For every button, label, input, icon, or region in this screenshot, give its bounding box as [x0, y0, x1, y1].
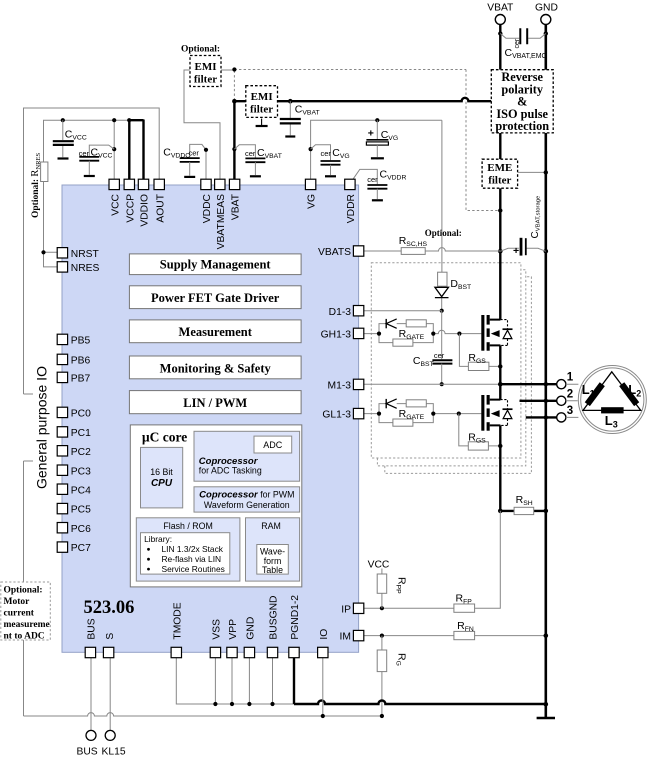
svg-text:LIN 1.3/2x Stack: LIN 1.3/2x Stack: [162, 544, 224, 554]
svg-text:CVDDR: CVDDR: [380, 169, 407, 182]
svg-text:General purpose IO: General purpose IO: [34, 366, 50, 489]
svg-text:GH1-3: GH1-3: [321, 330, 352, 341]
svg-text:523.06: 523.06: [84, 598, 135, 618]
svg-text:LIN / PWM: LIN / PWM: [183, 396, 247, 410]
svg-text:Optional:: Optional:: [4, 586, 43, 596]
svg-text:nt to ADC: nt to ADC: [4, 632, 45, 642]
svg-text:Waveform Generation: Waveform Generation: [204, 500, 290, 510]
svg-text:measureme: measureme: [4, 620, 50, 630]
svg-text:CVBAT: CVBAT: [295, 104, 320, 117]
svg-text:+: +: [368, 128, 374, 140]
svg-text:current: current: [4, 609, 35, 619]
svg-text:cer: cer: [367, 175, 378, 184]
svg-text:16 Bit: 16 Bit: [150, 467, 173, 477]
svg-text:PC6: PC6: [71, 524, 91, 535]
svg-text:IP: IP: [341, 604, 351, 615]
svg-text:TMODE: TMODE: [173, 602, 184, 639]
svg-text:VCCP: VCCP: [125, 194, 136, 223]
svg-text:CPU: CPU: [151, 478, 173, 489]
svg-text:for ADC Tasking: for ADC Tasking: [199, 466, 262, 476]
svg-text:Motor: Motor: [4, 597, 31, 607]
svg-text:RG: RG: [395, 653, 408, 666]
svg-text:BUS: BUS: [87, 618, 98, 639]
svg-text:CVG: CVG: [332, 147, 349, 160]
svg-text:filter: filter: [250, 104, 273, 116]
svg-text:D1-3: D1-3: [329, 307, 352, 318]
svg-text:AOUT: AOUT: [155, 193, 166, 222]
svg-text:CVBAT,EMC: CVBAT,EMC: [505, 47, 547, 60]
svg-text:Monitoring & Safety: Monitoring & Safety: [160, 361, 272, 375]
svg-text:1: 1: [567, 371, 574, 383]
svg-text:PC4: PC4: [71, 485, 91, 496]
svg-text:Table: Table: [262, 565, 283, 575]
svg-text:Measurement: Measurement: [179, 325, 253, 339]
svg-text:filter: filter: [194, 73, 217, 85]
svg-text:2: 2: [567, 389, 573, 401]
svg-text:VCC: VCC: [110, 193, 121, 215]
svg-text:Coprocessor for PWM: Coprocessor for PWM: [199, 489, 294, 500]
svg-text:filter: filter: [488, 175, 511, 187]
svg-text:Library:: Library:: [144, 534, 172, 544]
svg-text:cer: cer: [245, 149, 256, 158]
svg-text:S: S: [105, 633, 116, 640]
svg-text:M1-3: M1-3: [328, 381, 352, 392]
svg-text:VDDR: VDDR: [346, 194, 357, 223]
svg-text:Optional:: Optional:: [181, 44, 220, 54]
svg-text:KL15: KL15: [102, 747, 126, 758]
svg-text:cer: cer: [514, 38, 521, 48]
svg-text:RAM: RAM: [261, 521, 281, 531]
svg-text:VBATMEAS: VBATMEAS: [216, 194, 227, 249]
svg-text:VBAT: VBAT: [231, 193, 242, 220]
svg-text:GL1-3: GL1-3: [322, 410, 351, 421]
svg-text:VG: VG: [307, 194, 318, 209]
svg-text:PC3: PC3: [71, 466, 91, 477]
svg-text:PC7: PC7: [71, 543, 91, 554]
svg-text:EMI: EMI: [195, 61, 217, 73]
svg-text:cer: cer: [321, 149, 332, 158]
svg-text:RFN: RFN: [457, 620, 474, 633]
svg-text:PB5: PB5: [71, 336, 91, 347]
svg-text:ADC: ADC: [263, 440, 283, 450]
svg-text:RGATE: RGATE: [399, 408, 425, 421]
svg-text:BUS: BUS: [77, 747, 98, 758]
svg-text:Power FET Gate Driver: Power FET Gate Driver: [151, 291, 280, 305]
svg-text:RGS: RGS: [468, 432, 486, 445]
svg-text:NRST: NRST: [71, 249, 100, 260]
svg-text:VPP: VPP: [228, 619, 239, 640]
svg-text:PC5: PC5: [71, 505, 91, 516]
svg-text:protection: protection: [495, 119, 549, 133]
svg-text:NRES: NRES: [71, 263, 100, 274]
svg-text:cer: cer: [189, 148, 200, 157]
svg-text:CVBAT,storage: CVBAT,storage: [530, 195, 542, 239]
svg-text:Optional:: Optional:: [425, 228, 462, 238]
svg-text:Flash / ROM: Flash / ROM: [163, 521, 212, 531]
svg-text:RGS: RGS: [468, 352, 486, 365]
svg-text:VBAT: VBAT: [487, 3, 514, 14]
svg-text:VCC: VCC: [368, 560, 390, 571]
svg-text:PC0: PC0: [71, 409, 91, 420]
svg-text:PB7: PB7: [71, 374, 91, 385]
svg-text:GND: GND: [535, 3, 558, 14]
svg-text:IM: IM: [340, 632, 351, 643]
svg-text:CVDDC: CVDDC: [163, 146, 190, 159]
svg-text:CBST: CBST: [413, 355, 434, 368]
svg-text:Re-flash via LIN: Re-flash via LIN: [162, 554, 222, 564]
svg-text:CVCC: CVCC: [91, 147, 113, 160]
svg-text:RSH: RSH: [516, 494, 533, 507]
svg-text:CVCC: CVCC: [65, 128, 87, 141]
svg-text:RGATE: RGATE: [399, 328, 425, 341]
svg-text:EME: EME: [487, 162, 512, 174]
svg-text:PB6: PB6: [71, 356, 91, 367]
svg-text:GND: GND: [246, 617, 257, 640]
svg-text:CVG: CVG: [381, 129, 398, 142]
svg-text:VDDC: VDDC: [202, 193, 213, 223]
svg-text:VSS: VSS: [212, 619, 223, 640]
svg-text:CVBAT: CVBAT: [257, 147, 282, 160]
svg-text:PGND1-2: PGND1-2: [290, 595, 301, 640]
svg-text:+: +: [513, 245, 519, 257]
svg-text:RPP: RPP: [395, 577, 408, 594]
svg-text:BUSGND: BUSGND: [269, 596, 280, 640]
svg-text:EMI: EMI: [251, 91, 273, 103]
svg-text:PC2: PC2: [71, 447, 91, 458]
svg-text:PC1: PC1: [71, 428, 91, 439]
svg-text:Optional: RNRES: Optional: RNRES: [30, 153, 42, 218]
svg-text:DBST: DBST: [450, 278, 471, 291]
svg-text:Supply Management: Supply Management: [160, 257, 272, 271]
svg-text:RFP: RFP: [456, 593, 473, 606]
svg-text:VBATS: VBATS: [318, 247, 351, 258]
svg-text:IO: IO: [319, 629, 330, 640]
svg-text:RSC,HS: RSC,HS: [399, 235, 428, 248]
svg-text:Service Routines: Service Routines: [162, 564, 225, 574]
svg-text:VDDIO: VDDIO: [140, 194, 151, 227]
svg-text:cer: cer: [79, 149, 90, 158]
svg-text:3: 3: [567, 405, 573, 417]
svg-text:cer: cer: [434, 351, 445, 360]
svg-text:µC core: µC core: [142, 430, 187, 445]
